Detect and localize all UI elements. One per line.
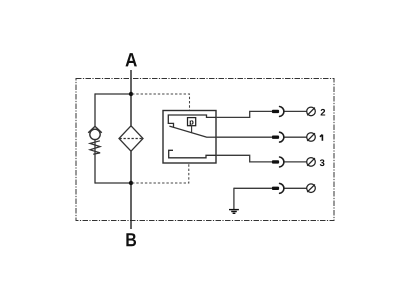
pressure switch S1 middle terminal stub xyxy=(206,136,216,138)
screw terminal 3 slash xyxy=(307,158,315,166)
screw terminal ground slash xyxy=(307,184,315,192)
screw terminal 3 circle xyxy=(307,158,316,167)
connector socket arc ground row xyxy=(280,183,284,193)
terminal label 2 xyxy=(321,109,326,116)
connector socket arc row 3 xyxy=(280,157,284,167)
connector pin row 1 xyxy=(272,136,279,139)
pressure switch S1 P sensor box xyxy=(188,118,196,126)
junction dot bottom xyxy=(129,181,133,185)
pressure switch S1 actuator link xyxy=(191,126,193,133)
connector pin ground row xyxy=(272,187,279,190)
pressure switch S1 box xyxy=(163,111,216,164)
wire terminal 2 row xyxy=(216,111,307,117)
wire ground row xyxy=(234,187,307,189)
port label B xyxy=(126,233,136,246)
pilot dashed line bottom xyxy=(132,163,189,183)
pressure switch S1 top terminal and fixed contact xyxy=(168,115,216,128)
wire left branch bottom horizontal xyxy=(95,182,131,184)
filter F1 dashed element xyxy=(120,138,143,140)
wire ground drop xyxy=(233,188,235,210)
pressure switch S1 P label xyxy=(190,120,194,126)
pressure switch S1 bottom terminal xyxy=(169,150,216,158)
connector socket arc row 1 xyxy=(280,132,284,142)
terminal label 3 xyxy=(320,159,325,166)
wire terminal 3 row xyxy=(216,155,307,162)
enclosure dash-dot border xyxy=(76,79,334,221)
check valve V1 seat chevron xyxy=(88,126,102,133)
port label A xyxy=(126,53,137,66)
wire left branch vertical lower xyxy=(94,140,96,184)
wire left branch vertical upper xyxy=(94,93,96,127)
screw terminal ground circle xyxy=(307,184,316,193)
wire terminal 1 row xyxy=(216,136,307,138)
junction dot top xyxy=(129,92,133,96)
pressure switch S1 lever xyxy=(169,126,206,137)
connector pin row 3 xyxy=(272,160,279,163)
screw terminal 1 circle xyxy=(307,133,316,142)
terminal label 1 xyxy=(320,135,323,141)
connector socket arc row 2 xyxy=(280,107,284,117)
screw terminal 1 slash xyxy=(307,133,315,141)
check valve V1 ball xyxy=(90,129,100,139)
filter F1 diamond xyxy=(119,126,143,151)
check valve V1 spring xyxy=(90,141,100,155)
ground symbol xyxy=(229,210,239,214)
connector pin row 2 xyxy=(272,110,279,113)
pilot dashed line top xyxy=(132,94,190,110)
wire main vertical A to B xyxy=(130,70,132,229)
screw terminal 2 slash xyxy=(307,108,315,116)
wire left branch top horizontal xyxy=(95,93,131,95)
screw terminal 2 circle xyxy=(307,107,316,116)
